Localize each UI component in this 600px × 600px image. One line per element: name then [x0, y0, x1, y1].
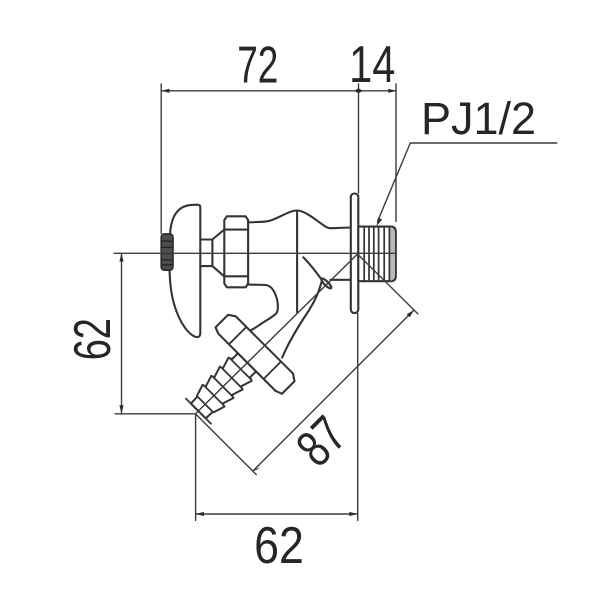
87 upper extension line [359, 255, 418, 314]
threaded pipe end PJ1/2 [358, 227, 396, 282]
svg-text:62: 62 [254, 517, 304, 575]
outlet end face [186, 399, 211, 424]
svg-text:14: 14 [349, 35, 395, 94]
PJ1/2 leader line [377, 143, 557, 222]
bottom dimension line 62 [196, 513, 358, 515]
arrow diamond at wall face [354, 88, 363, 93]
left dimension line 62 [121, 253, 123, 413]
horizontal centre axis line [114, 252, 396, 254]
spout junction lens [320, 277, 332, 289]
body right silhouette curve [303, 257, 321, 279]
bonnet hex nut [224, 216, 248, 287]
arrow bottom-62 right [349, 512, 357, 516]
87 lower extension line [196, 414, 256, 474]
svg-text:PJ1/2: PJ1/2 [421, 93, 536, 144]
top left extension line [160, 84, 162, 234]
bottom 62 right extension line [357, 314, 359, 521]
body vertical seam line [296, 211, 298, 312]
spout trumpet curve (right side) [282, 281, 322, 358]
arrowheads [119, 88, 414, 516]
arrow PJ leader [377, 218, 383, 226]
svg-text:62: 62 [63, 318, 121, 360]
arrow 87 lower [253, 467, 260, 471]
body top outline with dome hump [248, 210, 351, 228]
nut facet lines [229, 327, 280, 378]
hose barb serrated outline [187, 351, 259, 423]
arrow bottom-62 left [196, 512, 204, 516]
arrow left-62 up [119, 253, 123, 261]
spindle stem [200, 240, 212, 267]
spout coupling hex nut [214, 312, 298, 396]
construction / centre lines [114, 84, 418, 521]
body bottom outline curving into spout hook [248, 284, 278, 330]
neck pipe bottom line [331, 279, 351, 281]
diagonal dimension line 87 [253, 310, 414, 471]
dimension lines [122, 91, 558, 514]
handle screw cap (dark, edge view) [161, 234, 173, 270]
top right extension line [395, 84, 397, 222]
arrow left-62 down [119, 405, 123, 413]
barb ring edges [195, 359, 251, 415]
svg-text:72: 72 [237, 35, 278, 94]
top middle extension line [358, 84, 360, 193]
arrow top-right [388, 89, 396, 93]
outlet horizontal extension line [115, 413, 196, 415]
bonnet flare cone [212, 230, 224, 277]
arrow top-left [161, 89, 169, 93]
arrow 87 upper [407, 310, 414, 317]
top dimension line 72 / 14 [161, 90, 396, 92]
bottom 62 left extension line [195, 414, 197, 521]
spout axis centre line [196, 253, 359, 413]
wall flange [351, 194, 359, 314]
spout assembly (rotated frame along 45 deg axis) [165, 312, 298, 445]
handle wheel (side view) [170, 205, 201, 337]
